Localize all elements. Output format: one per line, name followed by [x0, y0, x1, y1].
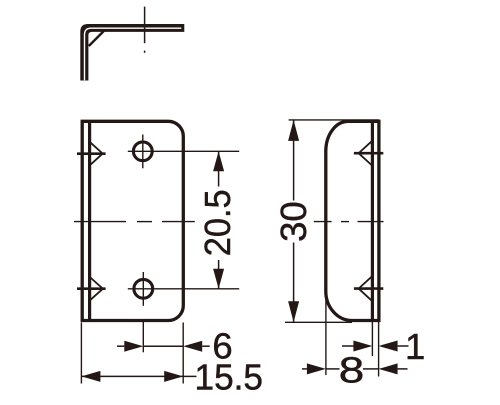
svg-text:20.5: 20.5 [197, 189, 238, 256]
svg-text:15.5: 15.5 [195, 357, 264, 398]
svg-text:8: 8 [339, 350, 365, 391]
svg-text:1: 1 [405, 326, 425, 367]
svg-text:30: 30 [273, 201, 314, 242]
